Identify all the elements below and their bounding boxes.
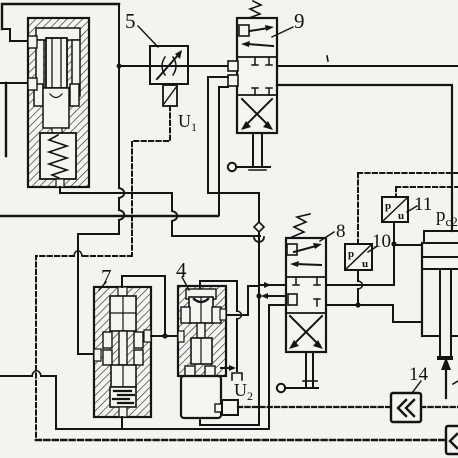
wire bus C tank line	[0, 215, 218, 218]
label 8 pointer	[320, 232, 334, 241]
wire valve8 lower-left port	[269, 304, 288, 306]
svg-text:8: 8	[336, 221, 346, 242]
transducer 10 p/u	[345, 244, 372, 270]
wire valve9 right upper to edge	[277, 65, 458, 67]
proportional solenoid of valve 5	[163, 85, 177, 106]
valve 9 arrow left	[247, 44, 273, 46]
label 5	[138, 26, 158, 47]
wire valve9 lower-left port	[219, 86, 228, 88]
mid piston chamber	[43, 88, 69, 128]
wire valve7 top loop	[122, 276, 165, 336]
left port notch	[178, 331, 184, 342]
wire drain to pilot	[285, 387, 318, 389]
node junction at throttle line	[117, 64, 122, 69]
wire bus A lower segment	[172, 221, 260, 236]
throttle valve 5 body	[150, 46, 188, 84]
wire into valve8 left upper	[260, 284, 296, 286]
wire valve7 bottom stem	[121, 417, 123, 429]
label 11 pointer	[407, 206, 417, 212]
throttle arrow diagonal	[157, 54, 179, 79]
cavity top band	[36, 28, 80, 40]
right port notch	[220, 309, 226, 320]
rod end bar	[437, 356, 453, 360]
wire main vertical from frame	[118, 4, 120, 188]
label 7 pointer	[99, 282, 106, 290]
wire valve8 right upper	[326, 284, 394, 286]
neck to spring	[52, 128, 62, 134]
cylinder piston lines	[422, 257, 458, 269]
left port notch	[94, 349, 101, 361]
lug left	[181, 307, 190, 323]
valve 8 pilot lines	[306, 352, 313, 387]
center stem	[197, 323, 205, 338]
wire short link	[248, 285, 257, 287]
scan speck	[327, 56, 328, 61]
node diamond	[254, 222, 264, 232]
valve 9 cross arrows	[242, 99, 269, 126]
U2 box 12	[222, 400, 238, 415]
lug right	[212, 307, 221, 323]
wire down to bottom bus	[268, 305, 270, 429]
valve 9 drain circle	[228, 163, 236, 171]
node junction transducer10	[355, 302, 360, 307]
bottom stem notch	[56, 179, 64, 187]
wire to valve4 right port	[221, 314, 248, 316]
wire valve4 top branch	[200, 281, 237, 311]
label U1 dashed control line	[132, 106, 170, 256]
box 13	[446, 426, 458, 454]
dashed U2 control line	[238, 406, 391, 408]
valve 9 body	[237, 18, 277, 133]
hump over dashed	[32, 371, 41, 376]
U2 solenoid connector	[215, 404, 222, 412]
node junction at valve7 out	[162, 333, 167, 338]
spool upper land	[46, 38, 67, 88]
wire across to control branch	[208, 192, 259, 194]
wire between valve7 and valve4	[151, 335, 178, 337]
node junction cylinder top feed	[391, 241, 396, 246]
wire valve8 left mid with arrow out	[266, 295, 286, 297]
wire left supply to valve1 lower port	[0, 82, 28, 84]
solenoid body of valve 4	[181, 376, 221, 418]
svg-text:11: 11	[414, 194, 432, 215]
wire vertical segment	[118, 198, 120, 210]
valve 8 pos-a box	[287, 244, 297, 255]
bottom notch left	[185, 366, 195, 376]
wire bus A down segment with jump over C	[171, 193, 173, 211]
svg-text:p: p	[348, 248, 354, 260]
cylinder cap	[424, 231, 458, 243]
port notch upper	[28, 36, 37, 48]
svg-text:5: 5	[125, 9, 136, 33]
chevrons of 14	[398, 400, 414, 416]
wire to left edge with hump	[0, 375, 56, 377]
cylinder barrel left wall	[421, 243, 423, 336]
spool land right line	[60, 38, 62, 88]
svg-text:9: 9	[294, 9, 305, 33]
cylinder bottom edges	[422, 335, 458, 337]
transducer 11 p/u	[382, 197, 408, 222]
lower piston	[111, 365, 136, 387]
dashed control to transducer 10	[358, 173, 458, 244]
wire control branch to bottom	[258, 296, 260, 425]
box 14	[391, 393, 421, 422]
valve 8 cross arrows	[290, 316, 319, 345]
cavity right leg	[72, 40, 80, 96]
wire bottom bus left	[56, 376, 269, 429]
valve 8 section dividers	[286, 277, 326, 313]
compensator valve 7 block	[94, 287, 151, 417]
top stem notch	[118, 287, 127, 296]
upper piston	[110, 296, 136, 331]
valve 9 mid tick marks	[252, 58, 272, 65]
port notch lower	[28, 78, 37, 90]
ls arrow	[221, 367, 230, 369]
lower piston	[191, 338, 212, 364]
wire down from valve9 left to bus C	[218, 87, 220, 215]
valve 8 left port box	[288, 294, 297, 305]
spring box of 7	[110, 387, 136, 407]
wire throttle feed line	[119, 65, 228, 67]
crossing hump below diamond	[254, 237, 264, 242]
wire stub down from supply	[5, 83, 7, 156]
bottom notch right	[205, 366, 215, 376]
hump over ls line	[237, 311, 242, 319]
cylinder rod lines	[440, 269, 451, 356]
jump hump over bus A	[119, 188, 124, 198]
jump hump over bus C	[119, 210, 124, 220]
wire vertical to corner then left	[78, 220, 119, 234]
cap symbol	[232, 373, 242, 380]
spool land left line	[51, 38, 53, 88]
wire control branch continue	[258, 232, 260, 296]
right port notch	[144, 330, 151, 342]
wire top frame	[2, 4, 119, 29]
spool arc detail	[50, 94, 62, 98]
valve 9 arrow right	[250, 28, 268, 31]
valve 9 left port box lower	[228, 75, 238, 86]
center stem	[119, 331, 127, 365]
spool crescent detail	[194, 299, 208, 302]
valve 8 arrow right	[294, 246, 316, 252]
valve 8 spring	[292, 214, 310, 237]
valve 8 arrow left	[296, 264, 321, 265]
wire box10 stem with hump	[357, 270, 359, 305]
lug row1 right	[134, 332, 143, 348]
top cavity	[186, 289, 216, 299]
svg-text:7: 7	[101, 265, 112, 289]
wire control branch down	[258, 193, 260, 222]
wire down from throttle line	[208, 77, 228, 193]
valve 8 body	[286, 238, 326, 352]
svg-text:u: u	[398, 210, 404, 222]
dashed control to transducer 11	[396, 187, 458, 197]
label 4 pointer	[182, 277, 189, 290]
load arrow up	[445, 366, 447, 398]
valve 9 pos-a box	[239, 25, 249, 36]
dashed control to left frame	[36, 256, 132, 440]
valve 8 pilot bar	[303, 380, 317, 382]
wire valve1 bottom stem	[59, 187, 61, 193]
valve 9 spring	[249, 1, 261, 18]
edge mark	[453, 381, 458, 384]
upper piston	[189, 297, 213, 323]
lug row1 left	[103, 332, 112, 348]
compensator valve 4 block	[178, 286, 226, 376]
valve U1 block body (hatched)	[28, 18, 89, 187]
wire down leg	[247, 286, 249, 315]
valve 9 pilot lines	[253, 133, 262, 167]
lug row2 right	[134, 350, 143, 365]
label 10 pointer	[368, 247, 376, 252]
bottom stem notch	[119, 407, 127, 417]
svg-text:4: 4	[176, 258, 187, 282]
side lug left	[34, 84, 43, 106]
wire to cylinder upper port	[394, 244, 422, 246]
cavity left leg	[36, 40, 44, 96]
svg-text:14: 14	[409, 364, 429, 385]
node junction	[256, 293, 261, 298]
wire box11 stem down	[393, 222, 395, 285]
jump hump of A over C	[172, 211, 177, 221]
chevron of 13	[450, 434, 457, 448]
hump of dashed over vertical	[74, 251, 82, 256]
lug row2 left	[103, 350, 112, 365]
dashed after box14	[421, 406, 458, 408]
throttle arcs	[162, 57, 176, 75]
valve 8 mid ticks	[293, 278, 320, 285]
valve 9 section dividers	[237, 57, 277, 95]
wire valve8 right lower	[326, 305, 422, 322]
label 14 pointer	[412, 381, 421, 393]
wire valve9 right lower to cylinder	[277, 85, 452, 231]
wire drain to pilot	[236, 166, 270, 168]
wire bus A reduced pressure	[60, 192, 172, 194]
valve 9 left port box upper	[228, 61, 238, 71]
spring zigzag	[49, 135, 67, 178]
wire port step to valve1 upper port	[2, 29, 28, 41]
wire down to valve7 feed	[78, 234, 94, 354]
valve 8 drain circle	[277, 384, 285, 392]
wire down to cap	[236, 319, 238, 371]
svg-text:u: u	[362, 258, 368, 270]
label 9 pointer	[272, 27, 293, 37]
wire pilot return to solenoid4	[200, 418, 259, 425]
bottom dashed feedback line	[36, 439, 446, 442]
side lug right	[70, 84, 79, 106]
spring chamber	[40, 133, 76, 179]
valve 9 pilot feet	[249, 169, 266, 171]
svg-text:10: 10	[372, 231, 391, 252]
svg-text:p: p	[385, 200, 391, 212]
